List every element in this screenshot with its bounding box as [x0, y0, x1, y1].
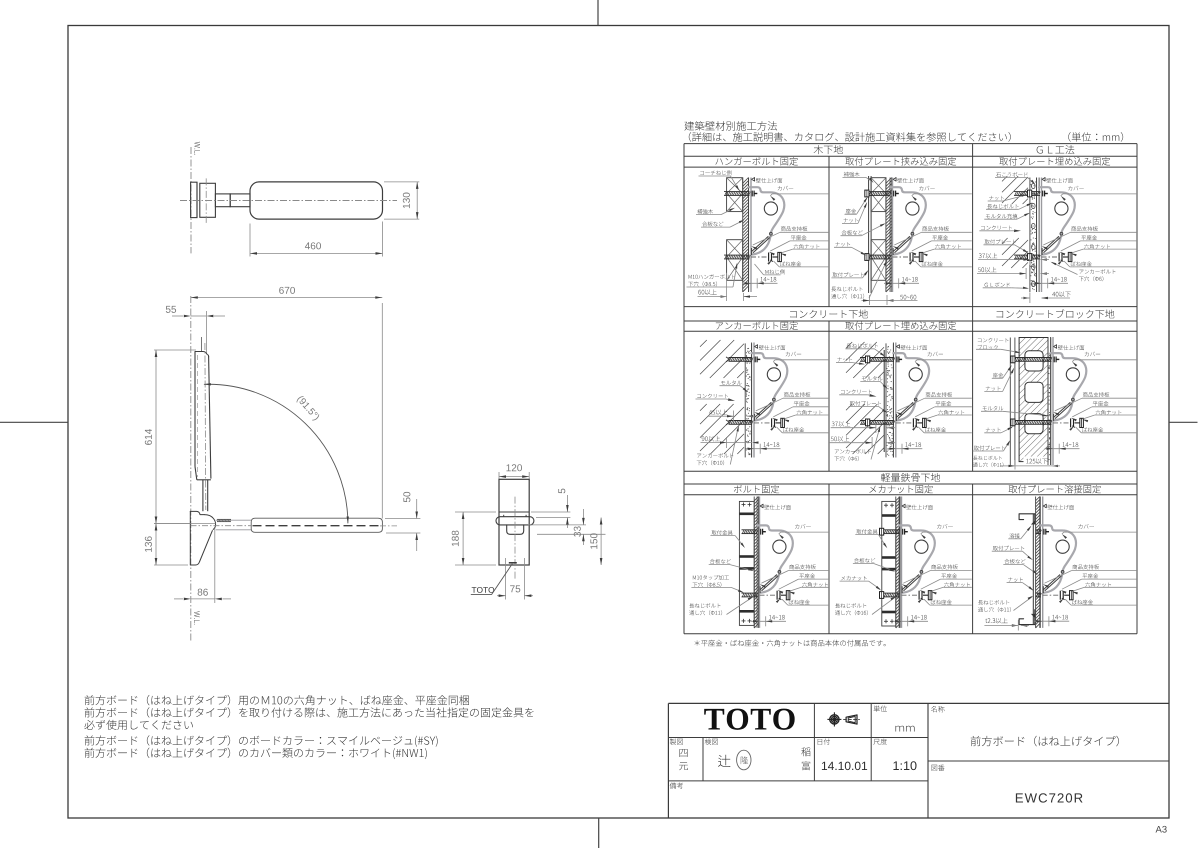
label cover	[937, 524, 952, 529]
concrete hatch	[846, 404, 852, 410]
scale	[893, 761, 916, 770]
spring washer	[912, 253, 914, 260]
flat washer	[768, 253, 770, 262]
bolt tip	[773, 256, 778, 258]
bottom center mark	[598, 818, 600, 848]
cover hole	[764, 202, 777, 215]
label cover	[778, 186, 793, 191]
concrete hatch	[700, 340, 707, 347]
mounting plate	[1032, 514, 1034, 625]
hatched board	[1035, 497, 1037, 628]
cover hole	[915, 540, 928, 553]
dim 40max	[1052, 292, 1071, 297]
TOTO mark label	[509, 562, 517, 564]
cover hole	[767, 368, 780, 381]
product cover profile	[1040, 525, 1076, 572]
dim 14-18	[1063, 442, 1079, 447]
W.L. label bottom	[194, 611, 200, 624]
hinge pin	[773, 398, 776, 401]
hatched board	[742, 178, 744, 293]
arm thread	[217, 518, 231, 520]
product notes	[85, 695, 469, 705]
wall finish surface label	[896, 345, 899, 349]
spring washer	[1061, 253, 1063, 260]
product cover profile	[893, 353, 929, 400]
wall finish surface	[756, 497, 758, 628]
label spring washer	[789, 600, 810, 605]
front view dim 120	[498, 472, 500, 481]
drafter name	[679, 749, 687, 757]
dim 136	[154, 523, 190, 525]
dim 188	[455, 511, 496, 513]
threaded bolt	[884, 529, 900, 531]
side view wall centerline	[190, 296, 192, 641]
dim 50min	[978, 267, 997, 273]
cover lower part	[1055, 402, 1073, 420]
label spring washer	[931, 600, 952, 605]
label flat washer	[932, 235, 948, 240]
lower bolt dashline	[893, 256, 909, 258]
hex nut	[786, 591, 790, 600]
label hex nut	[1096, 410, 1122, 415]
product cover profile	[890, 187, 926, 234]
label spring washer	[925, 427, 946, 432]
wall finish surface	[892, 343, 894, 458]
label spring washer	[1071, 261, 1092, 266]
nut	[880, 592, 884, 599]
dim 60min	[698, 289, 716, 295]
dim 670	[191, 297, 382, 299]
label flat washer	[1093, 401, 1109, 406]
cover lower part	[753, 237, 771, 255]
hinge pin	[914, 398, 917, 401]
hinge pin	[770, 232, 773, 235]
front view board end	[496, 517, 534, 525]
block left face	[1009, 338, 1011, 466]
hex nut	[781, 418, 785, 427]
upper bolt fixing	[893, 191, 895, 197]
support plate	[755, 402, 772, 417]
lower bolt dashline	[1053, 422, 1069, 424]
cover hole	[1066, 368, 1079, 381]
top view arm	[230, 194, 250, 207]
dim 14-18	[911, 615, 927, 620]
side view gusset	[190, 511, 212, 565]
flat washer	[918, 591, 920, 600]
label flat washer	[1083, 573, 1099, 578]
upper bolt fixing	[1043, 529, 1045, 535]
support plate	[896, 402, 913, 417]
threaded bolt	[1014, 191, 1040, 193]
upper bolt fixing	[1053, 357, 1055, 363]
dim t2.3min	[985, 618, 1007, 624]
title block	[668, 702, 1169, 704]
side view board up position	[195, 352, 209, 358]
label spring washer	[1072, 600, 1093, 605]
hex nut	[1068, 252, 1072, 261]
product cover profile	[1051, 353, 1087, 400]
drawing number	[1016, 793, 1083, 802]
bolt tip	[923, 594, 928, 596]
lower bolt dashline	[751, 256, 767, 258]
concrete hatch	[1002, 238, 1008, 244]
support plate	[902, 575, 919, 590]
hinge pin	[778, 571, 781, 574]
wall finish surface	[898, 497, 900, 628]
label support plate	[1083, 392, 1109, 397]
row2 headers	[790, 309, 868, 318]
dim 37min	[979, 253, 997, 259]
label cover	[1078, 524, 1093, 529]
block holes	[1025, 351, 1043, 371]
cover lower part	[894, 237, 912, 255]
bolt tip	[917, 422, 922, 424]
label flat washer	[941, 573, 957, 578]
label flat washer	[1081, 235, 1097, 240]
label hex nut	[802, 582, 828, 587]
lower bolt dashline	[896, 422, 912, 424]
bolt tip	[781, 594, 786, 596]
flat washer	[1070, 418, 1072, 427]
dim 90min	[702, 436, 720, 442]
dim 130	[384, 181, 419, 183]
support plate	[1042, 236, 1059, 251]
label spring washer	[1082, 427, 1103, 432]
steel channel	[882, 501, 896, 626]
upper bolt fixing	[754, 357, 756, 363]
hex nut	[1080, 418, 1084, 427]
flat washer	[1059, 591, 1061, 600]
dim 50min	[831, 436, 850, 442]
dim 14-18	[1051, 277, 1067, 282]
threaded bolt	[729, 357, 753, 359]
label support plate	[789, 564, 815, 569]
mortar band	[1029, 178, 1031, 293]
wall finish surface	[889, 178, 891, 293]
third angle projection symbol	[833, 718, 836, 721]
left center mark	[0, 421, 68, 423]
label flat washer	[794, 401, 810, 406]
checker name	[718, 755, 730, 767]
wall finish surface	[1039, 497, 1041, 628]
dim 125max	[1024, 457, 1048, 466]
product cover profile	[752, 353, 788, 400]
hex nut	[919, 252, 923, 261]
hex nut	[1070, 591, 1074, 600]
wall finish surface	[1038, 178, 1040, 293]
bottom C channel	[1019, 610, 1035, 625]
bolt tip	[1064, 594, 1069, 596]
anchor wedges	[726, 357, 730, 360]
GL bond dabs	[1032, 183, 1036, 188]
hinge pin	[911, 232, 914, 235]
spring washer	[1073, 419, 1075, 426]
hinge pin	[920, 571, 923, 574]
upper bolt fixing	[760, 529, 762, 535]
threaded bolt	[884, 592, 900, 594]
dim 14-18	[764, 442, 780, 447]
table grid	[684, 143, 1137, 145]
top C channel	[1019, 514, 1035, 524]
hinge pin	[1060, 232, 1063, 235]
TOTO logo	[704, 709, 794, 730]
nut	[866, 356, 870, 363]
label support plate	[781, 226, 807, 231]
weld beads	[1031, 521, 1035, 525]
steel channel	[739, 501, 754, 625]
bolt tip	[914, 256, 919, 258]
support plate	[752, 236, 769, 251]
label support plate	[922, 226, 948, 231]
threaded bolt	[867, 191, 891, 193]
cover hole	[773, 540, 786, 553]
dim 14-18	[905, 442, 921, 447]
sheet size label A3	[1156, 826, 1167, 833]
spring washer	[921, 592, 923, 599]
cover hole	[1055, 202, 1068, 215]
spring washer	[915, 419, 917, 426]
wall finish surface label	[893, 178, 896, 182]
label hex nut	[797, 410, 823, 415]
label cover	[795, 524, 810, 529]
date	[822, 762, 867, 770]
side view pivot knob	[204, 515, 215, 530]
product name	[971, 736, 1119, 747]
rotation arc 91.5deg	[204, 384, 348, 523]
upper bolt fixing	[896, 357, 898, 363]
hatched board	[753, 497, 755, 628]
label hex nut	[794, 244, 820, 249]
wood stud	[871, 178, 886, 212]
label flat washer	[791, 235, 807, 240]
top view horizontal centerline	[180, 200, 397, 202]
nut	[880, 528, 884, 535]
dim 614	[154, 349, 196, 351]
label support plate	[931, 564, 957, 569]
label spring washer	[922, 261, 943, 266]
spring washer	[771, 253, 773, 260]
top view hinge step	[215, 194, 230, 207]
threaded bolt	[867, 254, 891, 256]
label support plate	[1071, 226, 1097, 231]
side view folded arm	[216, 519, 251, 521]
wood stud	[727, 240, 743, 281]
dim 50-60	[900, 295, 916, 300]
label hex nut	[1084, 244, 1110, 249]
spring washer	[779, 592, 781, 599]
nut	[866, 419, 870, 426]
flat washer	[909, 253, 911, 262]
threaded bolt	[1014, 254, 1040, 256]
row3 headers	[881, 473, 940, 482]
threaded bolt	[724, 254, 750, 256]
top view bracket body	[200, 183, 216, 217]
lower bolt dashline	[760, 594, 776, 596]
label support plate	[784, 392, 810, 397]
side view wall bracket	[190, 511, 204, 514]
product cover profile	[1039, 187, 1075, 234]
hex nut	[778, 252, 782, 261]
wall finish surface	[751, 343, 753, 458]
row1 headers	[814, 145, 843, 154]
label flat washer	[799, 573, 815, 578]
label cover	[928, 352, 943, 357]
spring washer	[1062, 592, 1064, 599]
dim 50	[385, 518, 420, 520]
threaded bolt	[1012, 420, 1052, 422]
dim 14-18	[761, 277, 777, 282]
hatched board	[895, 497, 897, 628]
mortar band	[1047, 338, 1049, 466]
wall finish surface label	[760, 504, 763, 508]
dim 150	[600, 518, 602, 566]
nut	[1011, 356, 1015, 363]
wall finish surface label	[755, 345, 758, 349]
top view board 460x130	[250, 182, 383, 219]
hatched board	[885, 178, 887, 293]
label hex nut	[1085, 582, 1111, 587]
lower bolt dashline	[902, 594, 918, 596]
side view arm up	[202, 480, 204, 511]
dim 33	[528, 524, 586, 526]
plus marks	[742, 504, 746, 506]
cover hole	[906, 202, 919, 215]
front view cover body	[499, 479, 529, 565]
front view arm notch	[507, 525, 524, 534]
dim 5	[531, 511, 570, 513]
wall finish surface label	[752, 178, 755, 182]
label spring washer	[783, 427, 804, 432]
bolt tip	[1075, 422, 1080, 424]
label support plate	[926, 392, 952, 397]
product cover profile	[899, 525, 935, 572]
dim 55	[191, 315, 207, 317]
label hex nut	[938, 410, 964, 415]
bolt tip	[776, 422, 781, 424]
support plate	[1054, 402, 1071, 417]
label cover	[1068, 186, 1083, 191]
dim 37min	[832, 421, 850, 427]
upper bolt fixing	[751, 191, 753, 197]
nut	[865, 254, 869, 261]
label cover	[1085, 352, 1100, 357]
lower bolt dashline	[754, 422, 770, 424]
spring washer	[774, 419, 776, 426]
top view centerline W.L.	[190, 147, 192, 253]
nut	[1028, 190, 1032, 197]
upper bolt fixing	[1042, 191, 1044, 197]
cover lower part	[1044, 575, 1062, 593]
cover hole	[1056, 540, 1069, 553]
mortar band	[744, 343, 746, 457]
cover lower part	[897, 402, 915, 420]
product cover profile	[757, 525, 793, 572]
cover lower part	[903, 575, 921, 593]
wall finish surface label	[1042, 178, 1045, 182]
concrete hatch	[700, 404, 707, 411]
threaded bolt	[1012, 357, 1052, 359]
dim 460	[249, 224, 251, 257]
board folded hidden edge	[253, 525, 381, 527]
wall finish surface	[748, 178, 750, 293]
cover hole	[909, 368, 922, 381]
accessories note	[695, 640, 886, 647]
embedded plate	[883, 350, 885, 452]
cover lower part	[1043, 237, 1061, 255]
threaded bolt	[742, 592, 758, 594]
mortar band	[885, 343, 887, 457]
label support plate	[1073, 564, 1099, 569]
nut	[865, 190, 869, 197]
flat washer	[771, 418, 773, 427]
dim 14-18	[902, 277, 918, 282]
hex nut	[923, 418, 927, 427]
support plate	[760, 575, 777, 590]
threaded bolt	[724, 191, 750, 193]
wood stud	[871, 240, 886, 281]
top view wall plate	[191, 182, 197, 217]
wall finish surface label	[1054, 345, 1057, 349]
label spring washer	[780, 261, 801, 266]
wall finish surface	[1050, 337, 1052, 465]
dim 14-18	[1052, 615, 1068, 620]
bolt tip	[1063, 256, 1068, 258]
top center mark	[597, 0, 599, 26]
hinge pin	[1072, 398, 1075, 401]
plus marks	[884, 504, 888, 506]
unit mm	[895, 726, 914, 732]
flat washer	[912, 418, 914, 427]
label hex nut	[935, 244, 961, 249]
hex nut	[928, 591, 932, 600]
label hex nut	[944, 582, 970, 587]
wall finish surface label	[902, 504, 905, 508]
nut	[1028, 254, 1032, 261]
threaded bolt	[1036, 529, 1042, 531]
lower bolt dashline	[1043, 594, 1059, 596]
concrete hatch	[846, 342, 852, 348]
label cover	[919, 186, 934, 191]
title block labels	[670, 738, 683, 744]
nut	[1011, 419, 1015, 426]
product cover profile	[749, 187, 785, 234]
dim 45min	[709, 410, 728, 416]
concrete hatch	[1002, 176, 1007, 181]
threaded bolt	[860, 357, 894, 359]
label M screw side	[765, 269, 784, 274]
dim 75	[505, 558, 507, 600]
cover lower part	[756, 402, 774, 420]
clamp plate	[868, 176, 870, 293]
side view board folded	[251, 518, 382, 532]
flat washer	[776, 591, 778, 600]
flat washer	[1058, 253, 1060, 262]
wall finish surface label	[1043, 504, 1046, 508]
hinge pin	[1061, 571, 1064, 574]
upper bolt fixing	[902, 529, 904, 535]
threaded bolt	[742, 529, 758, 531]
front view centerline	[514, 497, 516, 580]
wood stud	[727, 178, 743, 212]
threaded bolt	[729, 420, 753, 422]
threaded bolt	[860, 420, 894, 422]
label cover	[786, 352, 801, 357]
threaded bolt	[1036, 592, 1042, 594]
lower bolt dashline	[1042, 256, 1058, 258]
installation methods header	[684, 121, 777, 131]
support plate	[1043, 575, 1060, 590]
label flat washer	[936, 401, 952, 406]
